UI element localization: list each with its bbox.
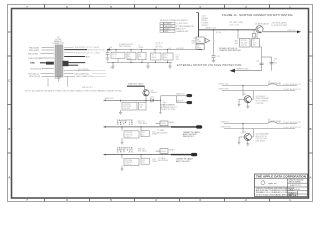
svg-text:C060 (CASS IN): C060 (CASS IN) bbox=[74, 72, 89, 75]
off-page flag CASS OUT bbox=[176, 93, 192, 98]
row D rail wire bbox=[104, 154, 172, 156]
row D junction dots bbox=[121, 154, 141, 155]
border outer frame line bbox=[8, 5, 313, 202]
svg-text:THE APPLE DATA CORPORATION: THE APPLE DATA CORPORATION bbox=[256, 175, 306, 179]
buffer triangle bbox=[205, 38, 209, 42]
ground rail bottom of cap bank bbox=[107, 62, 172, 64]
svg-text:VIDEO OUT: VIDEO OUT bbox=[219, 84, 230, 86]
label left of R1 bbox=[235, 40, 239, 45]
svg-text:DO NOT SCALE THIS DRAWING REF: DO NOT SCALE THIS DRAWING REF 031-0042 bbox=[256, 193, 293, 196]
row C junction dots bbox=[121, 126, 141, 127]
capacitor box C5 bbox=[151, 50, 162, 61]
svg-text:C040 STROBE: C040 STROBE bbox=[28, 58, 42, 60]
svg-text:C020 (CASS OUT): C020 (CASS OUT) bbox=[76, 75, 93, 78]
rail drop to C15 bbox=[213, 30, 215, 52]
title block outer box bbox=[255, 174, 308, 197]
svg-text:MONITOR CONNECTOR PINOUT: MONITOR CONNECTOR PINOUT bbox=[160, 20, 189, 22]
svg-text:7: 7 bbox=[26, 5, 28, 9]
row D text under cable bbox=[158, 157, 169, 162]
transistor Q4 bbox=[244, 131, 252, 140]
row B right junction vertical bbox=[160, 96, 162, 113]
diode CR2 on rail bbox=[150, 96, 154, 102]
wire PB0 left bbox=[29, 47, 54, 49]
main unreg rail bbox=[199, 28, 256, 34]
svg-text:C11 .1: C11 .1 bbox=[126, 136, 131, 138]
svg-text:SHT 10 A: SHT 10 A bbox=[289, 194, 298, 197]
svg-text:ANNUNCIATOR OUT 2 (AN2): ANNUNCIATOR OUT 2 (AN2) bbox=[76, 51, 100, 54]
zone numbers bottom bbox=[26, 198, 291, 202]
svg-text:5: 5 bbox=[110, 5, 112, 9]
row C dense note text bbox=[183, 131, 200, 138]
svg-text:F1 2A: F1 2A bbox=[216, 31, 222, 34]
logo apple bbox=[261, 180, 265, 185]
regulator U1 box bbox=[196, 37, 204, 43]
svg-text:TO EXT MONITOR J2: TO EXT MONITOR J2 bbox=[283, 89, 301, 91]
wire annunciator bold right bbox=[64, 49, 112, 52]
border inner frame line bbox=[12, 9, 309, 199]
svg-text:Q4: Q4 bbox=[244, 131, 246, 133]
rail arrow into U2 bbox=[199, 49, 202, 51]
svg-text:4: 4 bbox=[155, 198, 157, 202]
ground symbol under rail 2 bbox=[146, 63, 149, 69]
svg-text:SEE NOTE 2: SEE NOTE 2 bbox=[82, 87, 93, 89]
capacitor text C7 bbox=[176, 54, 180, 60]
svg-text:GC1 (PDL1): GC1 (PDL1) bbox=[78, 69, 89, 71]
zone letters right bbox=[309, 30, 312, 180]
text block right of Q1 bbox=[271, 22, 288, 27]
svg-text:0 V REF SIGNAL RTN: 0 V REF SIGNAL RTN bbox=[176, 25, 195, 28]
power rail +5V top bbox=[107, 47, 199, 51]
title block vertical divider bbox=[287, 179, 289, 197]
zone tick marks right bbox=[309, 56, 313, 153]
svg-text:RECORDER: RECORDER bbox=[157, 132, 168, 134]
legend table bbox=[160, 22, 195, 33]
title band company name bbox=[255, 175, 308, 179]
svg-text:C8 10: C8 10 bbox=[152, 57, 157, 59]
capacitor C10 box bbox=[139, 100, 147, 110]
svg-text:REV 00 SIZE A: REV 00 SIZE A bbox=[289, 180, 301, 183]
svg-text:CHASSIS GND: CHASSIS GND bbox=[176, 30, 189, 33]
text block under heading bbox=[229, 22, 244, 26]
svg-text:1: 1 bbox=[289, 198, 291, 202]
cap bank top labels bbox=[119, 43, 172, 50]
ground symbol under rail 3 bbox=[168, 63, 171, 69]
ground below R12 bbox=[119, 110, 122, 115]
svg-text:VIDEO IN: VIDEO IN bbox=[221, 122, 230, 124]
wire drop to Q4 bbox=[242, 124, 244, 134]
svg-text:GND: GND bbox=[110, 67, 115, 69]
svg-text:PB2 (SW2): PB2 (SW2) bbox=[28, 53, 38, 55]
wire SW3 right bbox=[64, 72, 106, 75]
U1 left pin labels bbox=[191, 38, 196, 45]
svg-text:6: 6 bbox=[66, 5, 68, 9]
right cell divider bbox=[288, 182, 308, 184]
svg-text:Q2: Q2 bbox=[244, 94, 246, 96]
svg-text:C17: C17 bbox=[256, 61, 259, 63]
label right of bold row C bbox=[138, 121, 148, 125]
net list text under flags bbox=[0, 0, 1, 1]
svg-text:SHEET 1 OF 1: SHEET 1 OF 1 bbox=[290, 185, 301, 187]
svg-text:+12V OUT: +12V OUT bbox=[287, 30, 296, 32]
wire AN3 bold right bbox=[64, 55, 91, 58]
svg-text:TO EXT MONITOR J2: TO EXT MONITOR J2 bbox=[283, 122, 301, 124]
Q4 collector wire to line B bbox=[251, 129, 253, 137]
ground under C15 bbox=[212, 60, 215, 62]
svg-text:7: 7 bbox=[26, 198, 28, 202]
svg-text:C9 .047: C9 .047 bbox=[124, 108, 130, 110]
svg-text:C13 .1: C13 .1 bbox=[126, 164, 131, 166]
resistor R12 box bbox=[121, 100, 138, 110]
svg-text:CR2: CR2 bbox=[150, 96, 154, 98]
resistor R15 text bbox=[163, 102, 166, 108]
capacitor chain C17 bbox=[256, 47, 264, 71]
svg-text:+5V DIST: +5V DIST bbox=[176, 48, 185, 50]
Q2 text block bbox=[256, 96, 270, 105]
svg-text:SHIELDED CABLE: SHIELDED CABLE bbox=[128, 83, 144, 86]
row D thick cable line bbox=[171, 153, 197, 156]
svg-text:MONO: MONO bbox=[169, 122, 175, 124]
bus labels bbox=[202, 15, 210, 27]
bold label CASSETTE IN bbox=[117, 119, 133, 126]
row C rail wire bbox=[104, 126, 172, 128]
svg-text:1W: 1W bbox=[253, 45, 256, 47]
ferrite bead label L2 bbox=[268, 81, 282, 85]
svg-text:B: B bbox=[310, 127, 312, 131]
inductor L1 box bbox=[138, 50, 146, 60]
svg-text:RECORDER: RECORDER bbox=[158, 160, 169, 162]
rail junction dots bbox=[107, 49, 168, 50]
svg-text:CHASSIS REFERENCED: CHASSIS REFERENCED bbox=[219, 49, 241, 52]
svg-text:.05: .05 bbox=[140, 107, 143, 109]
ground under C1 bbox=[106, 58, 110, 60]
svg-text:GC3 (PDL3): GC3 (PDL3) bbox=[29, 76, 40, 78]
wire GC3 left bbox=[29, 76, 54, 78]
label right of bold row D bbox=[138, 148, 147, 153]
Q2 collector wire to line B bbox=[251, 91, 253, 100]
svg-text:SEE NOTE 3: SEE NOTE 3 bbox=[183, 136, 194, 138]
svg-text:R5 75 OHM 5%: R5 75 OHM 5% bbox=[256, 100, 269, 102]
zone numbers top bbox=[26, 5, 291, 9]
svg-text:CR6 1N914: CR6 1N914 bbox=[256, 141, 265, 143]
svg-text:FIGURE 10 - MONITOR CONNECTION: FIGURE 10 - MONITOR CONNECTION WITH TEST… bbox=[222, 14, 293, 17]
svg-text:VIDEO RTN: VIDEO RTN bbox=[219, 89, 229, 91]
svg-text:VIDEO RTN: VIDEO RTN bbox=[221, 127, 231, 129]
svg-text:CHASSIS GND: CHASSIS GND bbox=[236, 68, 249, 71]
transistor Q1 bbox=[255, 22, 270, 32]
svg-text:Q1 REGULATOR: Q1 REGULATOR bbox=[255, 22, 270, 25]
wire video line A with ferrite hump bbox=[219, 84, 301, 87]
row C right plug symbol bbox=[156, 121, 176, 126]
svg-text:LINE JACK: LINE JACK bbox=[138, 122, 148, 125]
wire to flags bbox=[161, 96, 187, 103]
ground below row C bbox=[121, 138, 124, 144]
svg-text:.1 .1: .1 .1 bbox=[112, 56, 116, 58]
svg-text:NOTE : ALL RESISTORS ARE IN OH: NOTE : ALL RESISTORS ARE IN OHMS 1/4W 5%… bbox=[25, 89, 123, 92]
wire Q1 emitter to R3 bbox=[257, 33, 262, 47]
row B junction dots bbox=[120, 100, 161, 101]
svg-text:CASS OUT: CASS OUT bbox=[176, 93, 186, 96]
connector J8 pin stubs right bbox=[63, 46, 65, 76]
wire GC1 right bbox=[64, 69, 106, 71]
svg-text:apple inc.: apple inc. bbox=[268, 183, 278, 185]
Q4 text block bbox=[256, 133, 270, 143]
resistor box R3 bbox=[252, 39, 260, 48]
wire C040 STROBE left bbox=[28, 58, 54, 60]
connector J8 pin stubs left bbox=[54, 46, 56, 76]
wire GC0 left bbox=[30, 68, 54, 70]
connector J8 header label bbox=[52, 37, 64, 45]
Q2 emitter ground bbox=[246, 103, 249, 109]
svg-text:R18 R19 TO SYNC: R18 R19 TO SYNC bbox=[160, 109, 176, 111]
wire +5V right row1 bbox=[64, 46, 99, 49]
off-page arrow chassis bbox=[230, 68, 262, 73]
zone letters left bbox=[8, 30, 11, 180]
svg-text:PLUG: PLUG bbox=[161, 123, 166, 125]
capacitor box C4 bbox=[127, 50, 136, 61]
ground below row D bbox=[121, 166, 124, 171]
svg-text:DECOUPLING: DECOUPLING bbox=[119, 46, 131, 48]
svg-text:7805: 7805 bbox=[197, 41, 201, 43]
svg-text:SCALE 1:1: SCALE 1:1 bbox=[289, 191, 298, 194]
svg-text:22uH: 22uH bbox=[139, 47, 144, 49]
capacitor box C2 C3 bbox=[111, 50, 125, 59]
wire drop to Q2 bbox=[242, 86, 244, 96]
wire line B bbox=[221, 127, 301, 129]
capacitor C1 symbol bbox=[106, 50, 110, 59]
svg-text:PLUG: PLUG bbox=[161, 151, 166, 153]
lower left dense text bbox=[256, 188, 295, 196]
resistor box R1 R2 bbox=[240, 39, 251, 48]
svg-text:4: 4 bbox=[155, 5, 157, 9]
bus wire vertical 12V bbox=[196, 13, 199, 38]
wire line A with ferrite hump bbox=[221, 122, 301, 125]
lower right cells bbox=[288, 191, 308, 197]
capacitor chain C18 bbox=[262, 57, 278, 71]
svg-text:3: 3 bbox=[199, 198, 201, 202]
zone tick marks left bbox=[8, 56, 12, 153]
Q4 emitter ground bbox=[246, 141, 249, 147]
wire shield drop bbox=[48, 77, 68, 88]
Q2 base wire and ground bbox=[238, 99, 246, 106]
svg-text:C15: C15 bbox=[217, 56, 220, 58]
capacitor C15 drop bbox=[212, 52, 220, 60]
wire GND bold left bbox=[30, 62, 54, 65]
output wire with arrow bbox=[263, 30, 301, 33]
drop from rail to R1 bbox=[237, 30, 239, 39]
wire PB2 left bbox=[28, 53, 54, 55]
resistor network box row C bbox=[122, 127, 139, 138]
svg-text:GND: GND bbox=[30, 63, 35, 65]
ground symbol under rail bbox=[111, 63, 114, 69]
svg-text:2: 2 bbox=[245, 198, 247, 202]
title block bbox=[255, 174, 308, 197]
connector J8 bottom tail wire bbox=[55, 77, 60, 82]
resistor network box row D bbox=[122, 155, 139, 167]
ground row B right bbox=[159, 112, 161, 113]
ground rail junction dots bbox=[112, 62, 168, 63]
svg-text:TO EXT MONITOR J2: TO EXT MONITOR J2 bbox=[283, 127, 301, 129]
svg-text:CASS OUT: CASS OUT bbox=[105, 97, 115, 100]
svg-text:6: 6 bbox=[66, 198, 68, 202]
row B rail wire bbox=[104, 97, 161, 101]
svg-text:3: 3 bbox=[199, 5, 201, 9]
transistor Q2 bbox=[244, 94, 252, 103]
row D right plug symbol bbox=[156, 149, 176, 154]
scale cell text bbox=[289, 191, 298, 197]
cap bank box drops to ground rail bbox=[118, 58, 168, 62]
wire GC2 left bbox=[28, 73, 54, 75]
svg-text:PB1 (SW1): PB1 (SW1) bbox=[29, 50, 39, 52]
svg-text:C20 .001 50V: C20 .001 50V bbox=[256, 138, 268, 140]
svg-text:CONNECTOR: CONNECTOR bbox=[52, 43, 64, 45]
off-page flag CASS IN bbox=[176, 100, 192, 105]
transistor Q3 bbox=[143, 90, 157, 96]
row D dense note text bbox=[176, 158, 193, 163]
wire +5V bold pins right bbox=[63, 61, 86, 66]
svg-text:CASS IN: CASS IN bbox=[176, 100, 184, 103]
wire CASS OUT right bbox=[64, 75, 106, 78]
bold label CASSETTE OUT bbox=[117, 147, 133, 154]
wire AN2 right bbox=[64, 51, 100, 54]
svg-text:1N914: 1N914 bbox=[152, 161, 157, 163]
svg-text:C19 10PF: C19 10PF bbox=[256, 103, 265, 105]
capacitor box C6 bbox=[163, 50, 173, 61]
connector J8 body bbox=[56, 45, 63, 77]
svg-text:ASSY 590-0032: ASSY 590-0032 bbox=[176, 160, 190, 163]
row C text under cable bbox=[157, 129, 168, 134]
net label CASSETTE DATA OUT bold wire bbox=[127, 83, 146, 90]
net list text stack left bbox=[160, 105, 177, 111]
svg-text:MONO: MONO bbox=[169, 150, 175, 152]
regulator U2 box bbox=[196, 44, 204, 50]
capacitor C14 row D bbox=[141, 155, 157, 165]
svg-text:B: B bbox=[8, 127, 10, 131]
svg-text:C16 10: C16 10 bbox=[241, 45, 247, 47]
ferrite bead label L3 bbox=[268, 119, 282, 123]
Q4 base wire and ground bbox=[238, 137, 246, 144]
row C thick cable line bbox=[171, 125, 202, 128]
svg-text:2: 2 bbox=[245, 5, 247, 9]
wire PB1 left bbox=[29, 50, 54, 52]
signal ground label box bbox=[219, 47, 241, 52]
wire Q3 emitter to rail bbox=[145, 96, 147, 100]
left lower divider bbox=[255, 186, 308, 188]
capacitor C12 row C bbox=[141, 127, 157, 137]
junction dot on unreg rail bbox=[213, 29, 214, 30]
svg-text:EIA 1V P-P: EIA 1V P-P bbox=[176, 27, 186, 30]
svg-text:1: 1 bbox=[289, 5, 291, 9]
svg-text:.01: .01 bbox=[142, 134, 145, 136]
svg-text:GC0 (PDL0): GC0 (PDL0) bbox=[30, 68, 41, 70]
right upper cells text bbox=[289, 180, 304, 184]
svg-text:20%: 20% bbox=[176, 59, 180, 61]
svg-text:UNREG +12V: UNREG +12V bbox=[205, 28, 217, 30]
svg-text:2N3904: 2N3904 bbox=[151, 92, 157, 94]
zone tick marks bottom bbox=[45, 198, 270, 202]
svg-text:EXT JACK: EXT JACK bbox=[138, 150, 147, 153]
svg-text:16V 20%: 16V 20% bbox=[155, 47, 163, 49]
wire video line B bbox=[219, 89, 301, 91]
svg-text:TO EXT MONITOR J2: TO EXT MONITOR J2 bbox=[283, 84, 301, 86]
svg-text:5: 5 bbox=[110, 198, 112, 202]
resistor R4 small bbox=[252, 30, 255, 37]
svg-text:GC2 (PDL2): GC2 (PDL2) bbox=[28, 73, 39, 75]
svg-text:+12V +/- 5%: +12V +/- 5% bbox=[229, 24, 239, 26]
svg-text:.01: .01 bbox=[142, 162, 145, 164]
svg-text:EXTERNAL MONITOR VOLTAGE PR: EXTERNAL MONITOR VOLTAGE PROTECTION bbox=[177, 64, 242, 67]
svg-text:TO MONITOR PWR: TO MONITOR PWR bbox=[271, 25, 288, 27]
zone tick marks top bbox=[45, 5, 270, 9]
rail junction dot Q1 bbox=[237, 29, 238, 30]
